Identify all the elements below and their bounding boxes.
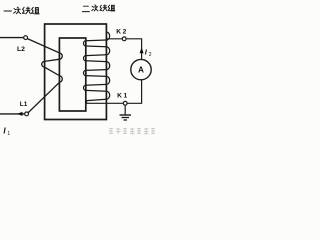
current arrow I2 (pointing up): [140, 47, 144, 53]
svg-text:1: 1: [7, 131, 10, 137]
terminal K1: [123, 101, 127, 105]
svg-text:2: 2: [149, 52, 152, 58]
wire L2 lead: [0, 37, 24, 39]
secondary winding (coil on right leg): [84, 32, 110, 103]
core outer rectangle: [45, 24, 107, 120]
svg-text:A: A: [138, 66, 144, 75]
terminal K2: [122, 37, 126, 41]
svg-text:L2: L2: [17, 46, 25, 53]
core inner rectangle: [59, 38, 85, 111]
watermark (gray): [109, 128, 156, 134]
terminal L2: [24, 36, 28, 40]
primary winding (2 turns on left leg): [27, 39, 62, 113]
wire K2 to terminal: [106, 38, 122, 40]
svg-text:L1: L1: [20, 101, 28, 108]
svg-text:K1: K1: [117, 92, 129, 99]
current arrow I1 (pointing left): [17, 112, 23, 116]
ground: [120, 105, 132, 120]
svg-text:K2: K2: [116, 28, 128, 35]
label 二次绕组 (secondary winding): [82, 5, 115, 12]
ammeter A: [131, 59, 151, 79]
wire K2 to ammeter branch: [126, 39, 142, 60]
terminal L1: [25, 112, 29, 116]
wire ammeter bottom to K1: [127, 80, 142, 103]
wire L1 lead: [0, 113, 25, 115]
label 一次绕组 (primary winding): [4, 7, 39, 14]
wire K1 to winding: [88, 102, 123, 104]
